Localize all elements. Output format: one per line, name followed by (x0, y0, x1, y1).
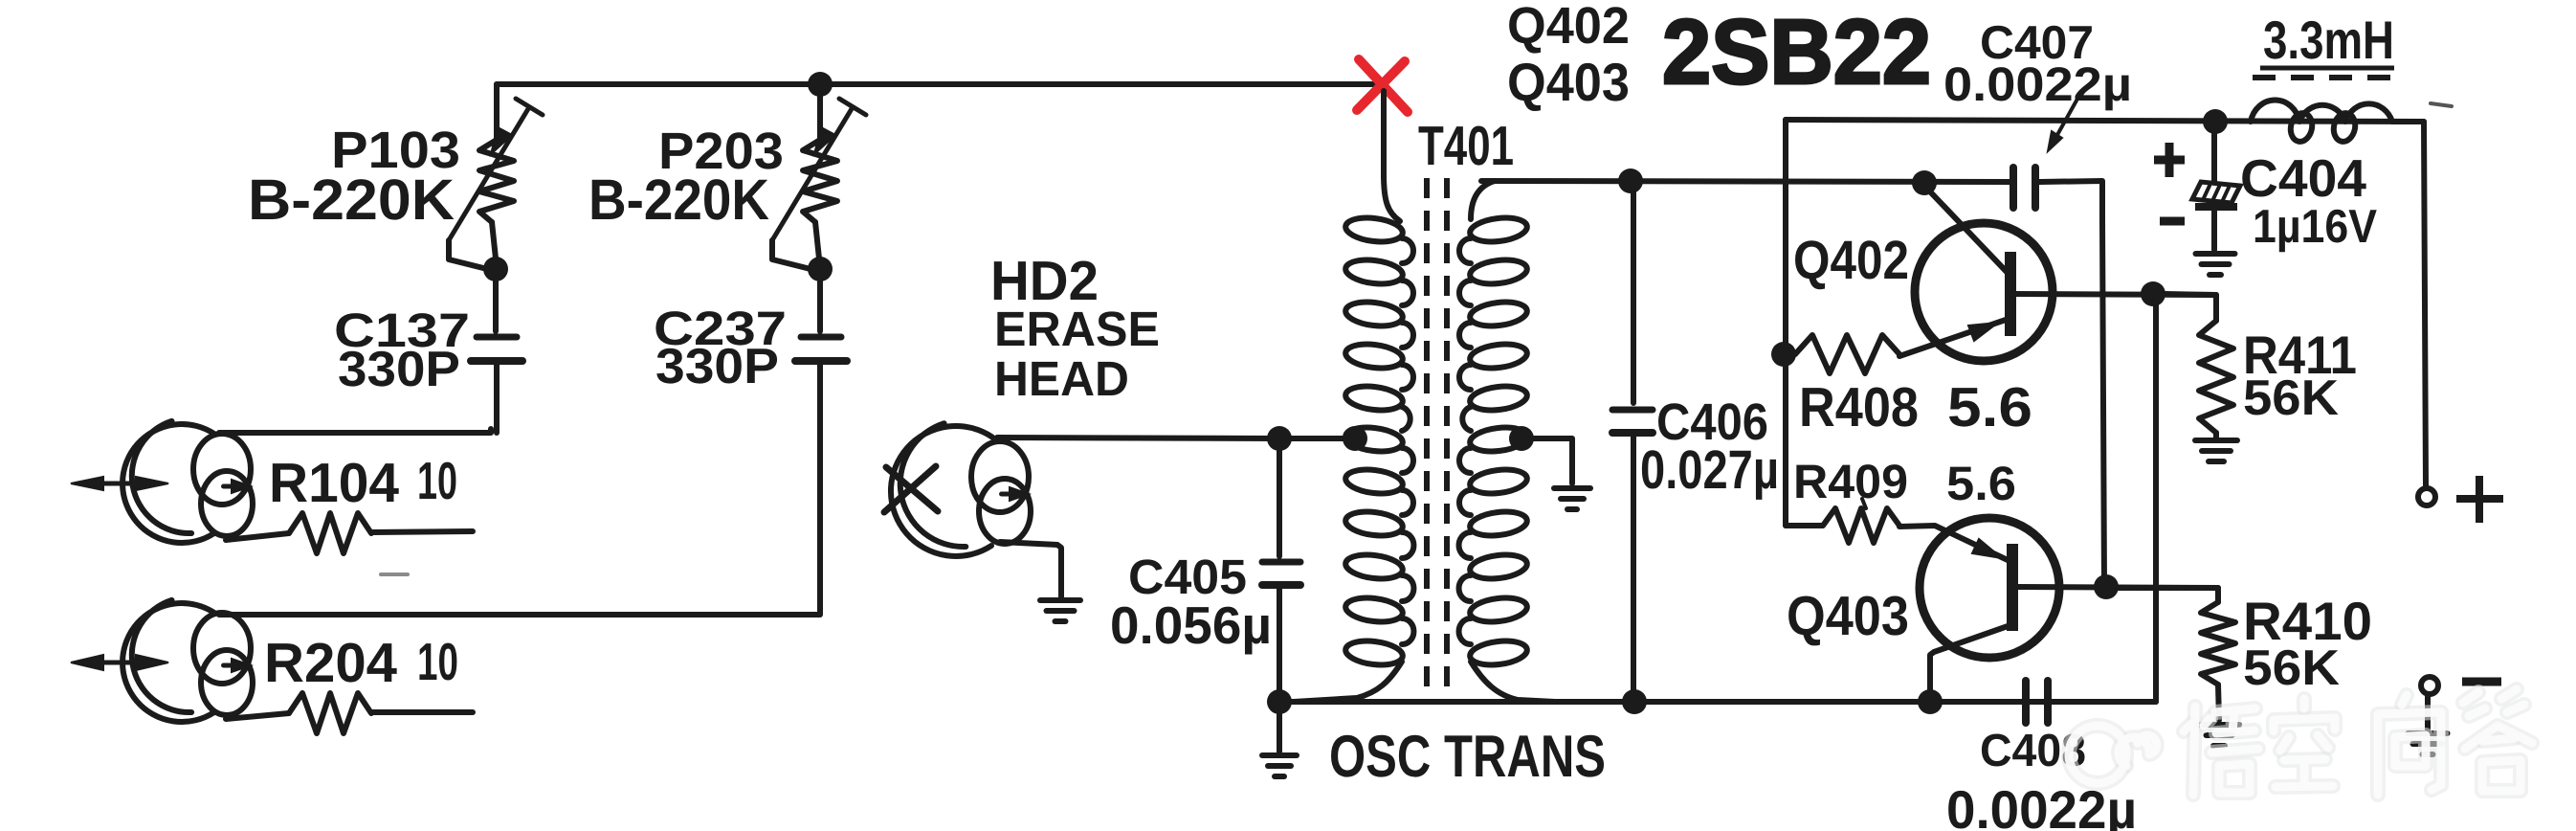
T401 secondary winding (1471, 181, 1495, 219)
node C406 top (1618, 168, 1643, 193)
node Q403 collector junction (2094, 574, 2119, 599)
wire HD1 top to C137 (219, 429, 491, 433)
label + (output) (2456, 495, 2503, 503)
transistor Q402 circle (1915, 223, 2053, 361)
capacitor C407 (2010, 168, 2017, 208)
transistor Q403 circle (1920, 518, 2059, 658)
wire X to T401 primary (1381, 91, 1387, 177)
wire C405 to ground (1277, 713, 1282, 752)
node P103/C137 junction (483, 257, 508, 281)
ground (- terminal) (2409, 730, 2448, 736)
T401 primary winding (1384, 92, 1400, 221)
transistor Q403 collector wire (2015, 587, 2218, 588)
ground (R410) (2199, 722, 2239, 728)
svg-text:2SB22: 2SB22 (1662, 1, 1931, 103)
svg-text:Q403: Q403 (1787, 585, 1909, 647)
svg-text:56K: 56K (2243, 640, 2340, 696)
resistor R408 (1784, 335, 1899, 373)
ground (C404) (2196, 251, 2235, 257)
svg-text:5.6: 5.6 (1946, 457, 2016, 510)
tape motion arrows (HD2ch) (71, 655, 168, 670)
svg-text:0.027µ: 0.027µ (1640, 439, 1779, 501)
node R408 branch (1771, 342, 1796, 367)
output terminal - (2421, 677, 2438, 694)
svg-text:OSC TRANS: OSC TRANS (1329, 724, 1606, 790)
svg-text:C404: C404 (2240, 148, 2366, 208)
node T401 secondary tap (1509, 426, 1534, 451)
svg-text:330P: 330P (655, 339, 779, 394)
wire secondary top rail (1481, 181, 2012, 182)
record/play head HD2ch (122, 600, 253, 722)
wire R410 to ground (2218, 685, 2219, 720)
svg-text:R204: R204 (264, 632, 397, 694)
capacitor C137 (477, 334, 517, 341)
inductor 3.3mH (2251, 100, 2392, 122)
resistor R409 (1786, 508, 1899, 543)
capacitor C406 (1612, 407, 1653, 414)
node T401 primary tap (1343, 426, 1367, 451)
node C405 top (1267, 426, 1292, 451)
svg-text:T401: T401 (1418, 115, 1514, 177)
wire R104 right (371, 531, 473, 532)
svg-text:10: 10 (417, 632, 458, 691)
capacitor C237 (801, 334, 841, 341)
wire Q402 emitter to R411 (2165, 294, 2216, 321)
wire C237 down to HD2ch (817, 365, 823, 615)
wire R204 right (371, 709, 473, 715)
svg-text:10: 10 (417, 451, 457, 510)
svg-text:Q402: Q402 (1793, 230, 1909, 291)
resistor R411 (2199, 321, 2233, 433)
wire P203 to C237 (817, 281, 823, 331)
svg-text:56K: 56K (2243, 371, 2339, 426)
watermark wukong logo+text (2069, 689, 2532, 795)
wire HD2ch bottom lead (226, 713, 289, 719)
resistor R410 (2201, 602, 2235, 685)
transistor Q402 collector wire (2013, 294, 2216, 295)
ground (erase head) (1040, 597, 1080, 603)
svg-text:5.6: 5.6 (1947, 376, 2032, 438)
erase head X mark (884, 466, 938, 512)
wire P103 to C137 (493, 281, 499, 331)
svg-text:Q402: Q402 (1507, 0, 1630, 55)
svg-text:R104: R104 (269, 452, 399, 514)
resistor R204 (289, 693, 371, 733)
3.3mH dashed core line (2253, 75, 2391, 80)
C404 plus sign (2154, 156, 2185, 165)
svg-text:B-220K: B-220K (248, 168, 455, 232)
node top bus / P203 (808, 72, 833, 97)
scan artifact tick (choke corner) (2431, 103, 2452, 106)
capacitor C405 (1262, 559, 1300, 566)
potentiometer P203 (772, 84, 866, 269)
transistor Q403 emitter lead (1899, 526, 2008, 560)
svg-text:3.3mH: 3.3mH (2263, 10, 2394, 70)
node C406 bottom (1622, 689, 1647, 714)
node Q403 base / bottom rail (1918, 689, 1943, 714)
output terminal + (2418, 488, 2435, 505)
wire C404 to ground (2211, 209, 2217, 250)
wire HD2 top to T401 (997, 438, 1353, 438)
capacitor C408 (2022, 681, 2030, 723)
node P203/C237 junction (808, 257, 833, 281)
label - (output) (2462, 678, 2501, 686)
C404 minus sign (2160, 217, 2185, 226)
3.3mH underline (2260, 66, 2394, 71)
svg-text:1µ16V: 1µ16V (2253, 201, 2377, 253)
wire R408/R409 branch (1783, 120, 1788, 526)
wire HD1 bottom lead (226, 533, 289, 540)
transistor Q402 base lead (1926, 188, 2007, 272)
wire secondary tap to ground (1527, 438, 1572, 483)
svg-text:HEAD: HEAD (994, 351, 1129, 406)
wire C405 top lead (1277, 450, 1282, 556)
tape motion arrows (HD1) (71, 477, 168, 490)
ground (R411) (2195, 438, 2237, 443)
ground (C405) (1262, 752, 1297, 758)
wire C406 top lead (1631, 191, 1636, 403)
record/play head HD1 (122, 421, 253, 543)
wire C137 down to HD1 (494, 365, 500, 433)
wire C407 right to Q403 collector (2039, 181, 2104, 587)
transistor Q402 emitter lead (1899, 320, 2006, 356)
wire choke to + terminal (2392, 122, 2426, 485)
capacitor C404 (electrolytic) (2192, 182, 2240, 203)
wire - terminal to ground (2425, 695, 2431, 730)
ground (secondary tap) (1554, 485, 1590, 491)
wire top bus (497, 81, 1384, 87)
wire upper rail corner (1786, 120, 2424, 122)
transistor Q402 emitter arrow (1968, 323, 1998, 341)
wire HD2 bottom to ground (1000, 542, 1061, 597)
wire C404 top lead (2211, 133, 2217, 182)
svg-text:0.056µ: 0.056µ (1110, 595, 1272, 655)
transistor Q403 base bar (2007, 544, 2018, 631)
node C405 bottom (1267, 689, 1292, 714)
svg-text:0.0022µ: 0.0022µ (1943, 57, 2132, 111)
node Q402 emitter junction (2141, 281, 2165, 306)
transistor Q403 base lead (1930, 625, 2010, 696)
node C404 branch (2203, 109, 2228, 134)
T401 core (1427, 178, 1447, 699)
wire C405 bottom lead (1277, 589, 1282, 702)
svg-text:ERASE: ERASE (994, 302, 1160, 356)
resistor R104 (289, 513, 371, 553)
svg-text:R408: R408 (1799, 376, 1919, 438)
red X mark (1357, 59, 1408, 112)
wire R411 to ground (2213, 433, 2219, 438)
wire C406 bottom lead (1631, 437, 1636, 702)
transistor Q402 base bar (2005, 252, 2016, 336)
svg-text:Q403: Q403 (1507, 52, 1630, 112)
svg-text:330P: 330P (338, 342, 460, 397)
C407 pointer arrow (2054, 101, 2076, 142)
scan artifact dash (381, 573, 408, 576)
svg-text:B-220K: B-220K (588, 168, 769, 232)
node C407 left (1912, 170, 1937, 195)
wire Q403 collector to R410 (2118, 588, 2218, 602)
wire C408 right up to Q402 emitter (2052, 297, 2156, 702)
scan artifact tick (R409) (1862, 499, 1866, 508)
wire HD2ch top long (219, 612, 819, 618)
wire bottom rail (1279, 699, 2156, 705)
svg-text:R409: R409 (1793, 455, 1908, 508)
erase head HD2 (891, 423, 1031, 556)
potentiometer P103 (449, 84, 543, 269)
transistor Q403 emitter arrow (1972, 539, 2002, 558)
